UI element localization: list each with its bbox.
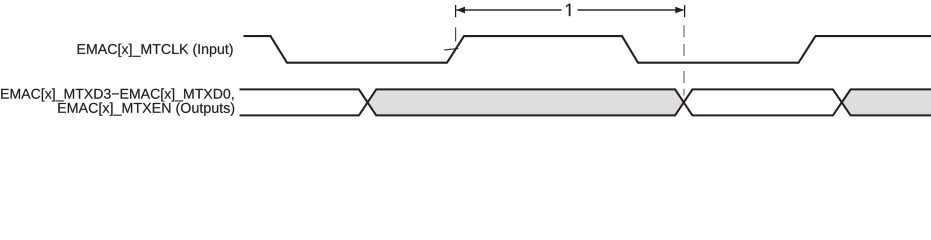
- label EMAC[x]_MTCLK (Input): [78, 44, 233, 57]
- shaded bus region between crossing 1 and crossing 2: [368, 89, 684, 115]
- clock waveform EMAC[x]_MTCLK: [244, 36, 931, 63]
- dashed reference line right (down to bus crossing 2): [683, 25, 685, 95]
- dashed reference line left (at clock rising edge): [455, 27, 457, 41]
- shaded bus region after crossing 3: [842, 89, 931, 115]
- bus waveform bottom rail: [240, 89, 931, 115]
- label EMAC[x]_MTXEN (Outputs) line 2: [58, 102, 234, 115]
- dimension line with arrows (parameter 1): [456, 5, 685, 17]
- mid-level tick on clock rising edge: [444, 49, 458, 50]
- label 1 (dimension number): [566, 4, 570, 16]
- bus waveform top rail: [240, 89, 931, 115]
- label EMAC[x]_MTXD3-EMAC[x]_MTXD0, line 1: [1, 88, 233, 101]
